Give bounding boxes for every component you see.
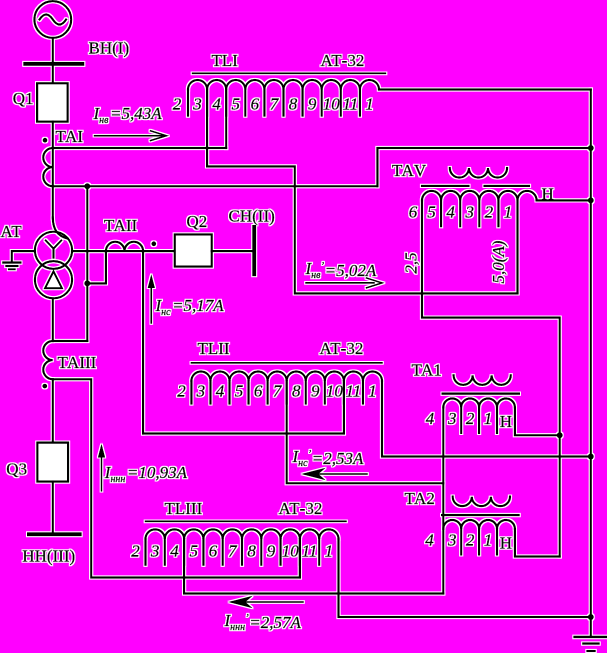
wire TAII right lead down xyxy=(142,251,144,433)
TA1 core bar xyxy=(443,393,519,395)
wire TAI top lead xyxy=(53,147,226,149)
svg-text:1: 1 xyxy=(325,542,334,561)
TLIII tap 4|5 long lead xyxy=(184,539,443,594)
junction xyxy=(588,614,594,620)
svg-text:НН(III): НН(III) xyxy=(22,547,75,566)
CT TAII polarity dot xyxy=(151,241,156,246)
TLI overbar xyxy=(193,72,386,74)
CT TA2 primary loops xyxy=(453,497,510,507)
svg-text:11: 11 xyxy=(302,542,318,561)
svg-text:3: 3 xyxy=(465,203,475,222)
svg-text:2: 2 xyxy=(466,531,475,550)
svg-text:ТА1: ТА1 xyxy=(412,361,442,380)
svg-text:Н: Н xyxy=(500,412,512,431)
CT TAIII loops xyxy=(43,341,53,379)
TAV terminal 6 lead xyxy=(422,200,560,556)
wire TLII end 1 to bus xyxy=(382,381,591,457)
svg-text:ТАIII: ТАIII xyxy=(58,353,97,372)
TA2 tap pins xyxy=(461,529,497,555)
junction xyxy=(588,454,594,460)
svg-text:1: 1 xyxy=(365,95,374,114)
svg-text:1: 1 xyxy=(484,531,493,550)
svg-text:6: 6 xyxy=(254,382,263,401)
right bus wire xyxy=(590,90,592,636)
CT TAIII polarity dot xyxy=(42,384,47,389)
svg-text:11: 11 xyxy=(342,95,358,114)
svg-text:1: 1 xyxy=(368,382,377,401)
junction xyxy=(588,145,594,151)
TLIII overbar xyxy=(146,520,347,522)
AT lower winding circle (delta) xyxy=(35,261,72,298)
svg-text:6: 6 xyxy=(209,542,218,561)
winding TAV secondary arcs xyxy=(422,191,537,201)
TA1 tap pins xyxy=(461,407,497,433)
svg-text:10: 10 xyxy=(323,95,341,114)
svg-text:ТАV: ТАV xyxy=(392,161,427,180)
svg-text:8: 8 xyxy=(292,382,301,401)
breaker Q2 xyxy=(175,234,212,266)
TLIII tap 10|11 lead xyxy=(299,539,301,578)
svg-text:10: 10 xyxy=(326,382,344,401)
ground (AT neutral) xyxy=(3,263,20,270)
TLI tap 3|4 long lead xyxy=(207,90,517,294)
wire TLI end 1 to bus xyxy=(379,88,591,90)
svg-text:4: 4 xyxy=(425,531,434,550)
svg-text:4: 4 xyxy=(426,409,435,428)
winding TLII arcs xyxy=(191,371,382,381)
svg-text:2: 2 xyxy=(131,542,140,561)
CT TAI polarity dot xyxy=(43,138,48,143)
svg-text:АТ-32: АТ-32 xyxy=(321,51,365,70)
svg-text:СН(II): СН(II) xyxy=(229,207,275,226)
svg-text:3: 3 xyxy=(150,542,160,561)
svg-text:3: 3 xyxy=(192,95,202,114)
busbar BH(I) xyxy=(25,62,82,66)
wire TAIII top lead xyxy=(53,340,88,342)
wire TA2 H lead xyxy=(515,529,560,557)
svg-text:6: 6 xyxy=(251,95,260,114)
winding TLIII arcs xyxy=(146,529,339,539)
op: AT upper winding circle (Y) xyxy=(35,232,72,269)
svg-text:9: 9 xyxy=(311,382,320,401)
winding TA2 secondary arcs xyxy=(443,520,515,529)
wire xyxy=(52,38,54,62)
wire TAII left lead xyxy=(87,251,106,283)
svg-text:2: 2 xyxy=(485,203,494,222)
wire xyxy=(52,298,54,341)
arrow I_nnn xyxy=(98,444,105,491)
TLI tap 4|5 lead to TAI xyxy=(225,90,227,149)
wire xyxy=(212,250,252,252)
wire TAV H to bus xyxy=(537,199,591,201)
svg-text:2,5: 2,5 xyxy=(402,252,421,273)
CT TAI secondary loops xyxy=(43,148,53,186)
svg-text:11: 11 xyxy=(346,382,362,401)
CT TAII loops xyxy=(106,242,143,251)
svg-text:Н: Н xyxy=(500,534,512,553)
svg-text:АТ-32: АТ-32 xyxy=(279,499,323,518)
svg-text:АТ: АТ xyxy=(1,222,23,241)
arrow I_nv xyxy=(95,131,167,141)
svg-text:7: 7 xyxy=(273,382,283,401)
svg-text:Q2: Q2 xyxy=(187,212,208,231)
TLII tap pins xyxy=(191,381,363,404)
junction xyxy=(557,432,563,438)
svg-text:ТАII: ТАII xyxy=(104,216,137,235)
CT TA1 primary loops xyxy=(454,375,511,385)
wire TA1 H lead xyxy=(515,407,560,435)
svg-text:5: 5 xyxy=(232,95,241,114)
TLIII tap pins xyxy=(146,539,320,565)
svg-text:9: 9 xyxy=(267,542,276,561)
svg-text:7: 7 xyxy=(228,542,238,561)
svg-text:ТLIII: ТLIII xyxy=(165,499,203,518)
svg-text:1: 1 xyxy=(484,409,493,428)
svg-text:6: 6 xyxy=(409,203,418,222)
svg-text:8: 8 xyxy=(289,95,298,114)
wire xyxy=(52,482,54,533)
wire TAI bottom lead xyxy=(53,185,378,187)
arrow I_ns xyxy=(148,274,155,323)
junction xyxy=(84,183,90,189)
svg-text:4: 4 xyxy=(170,542,179,561)
wire TAIII bottom lead xyxy=(53,379,300,577)
TLII tap 7|8 long lead xyxy=(287,381,444,483)
wire TLIII end 1 to ground bus xyxy=(339,539,591,617)
svg-text:3: 3 xyxy=(196,382,206,401)
junction xyxy=(588,197,594,203)
CT TAV primary loops xyxy=(450,168,507,178)
svg-text:ТАI: ТАI xyxy=(56,127,84,146)
ground (relay circuit) xyxy=(575,637,607,651)
svg-text:2: 2 xyxy=(173,95,182,114)
svg-text:10: 10 xyxy=(282,542,300,561)
svg-text:АТ-32: АТ-32 xyxy=(320,339,364,358)
wire up to right bus xyxy=(377,148,590,186)
svg-text:5: 5 xyxy=(427,203,436,222)
svg-text:4: 4 xyxy=(212,95,221,114)
svg-text:Q1: Q1 xyxy=(13,89,34,108)
TLII overbar xyxy=(191,362,382,364)
wire xyxy=(52,122,54,219)
svg-text:ТLII: ТLII xyxy=(198,339,230,358)
breaker Q1 xyxy=(37,83,68,122)
TAV tap pins xyxy=(441,200,498,226)
svg-text:9: 9 xyxy=(308,95,317,114)
wire TAII to TLII tap xyxy=(143,432,344,434)
svg-text:ВН(I): ВН(I) xyxy=(89,39,130,58)
winding TLI arcs xyxy=(188,80,379,90)
svg-text:2: 2 xyxy=(466,409,475,428)
svg-text:Q3: Q3 xyxy=(6,460,27,479)
wire curve into AT xyxy=(53,218,68,239)
svg-text:ТLI: ТLI xyxy=(212,51,239,70)
wire AT medium-voltage lead xyxy=(72,250,175,252)
svg-text:1: 1 xyxy=(504,203,513,222)
svg-text:ТА2: ТА2 xyxy=(405,489,435,508)
TLI tap pins xyxy=(188,90,360,116)
busbar CH(II) xyxy=(252,227,256,274)
wire TAI/TAII/TAIII secondary chain vertical xyxy=(86,186,88,341)
wire xyxy=(52,379,54,442)
TLII tap 10|11 lead xyxy=(343,381,345,434)
winding TA1 secondary arcs xyxy=(443,398,515,407)
svg-text:2: 2 xyxy=(177,382,186,401)
wire to ground xyxy=(12,251,35,262)
svg-text:4: 4 xyxy=(446,203,455,222)
generator G xyxy=(34,1,71,38)
junction xyxy=(84,280,90,286)
wire xyxy=(52,66,54,83)
arrow I*_nv xyxy=(306,278,382,288)
arrow I*_ns xyxy=(301,468,367,481)
svg-text:7: 7 xyxy=(270,95,280,114)
svg-text:3: 3 xyxy=(447,409,457,428)
svg-text:Н: Н xyxy=(542,185,554,204)
TAV core bars xyxy=(422,185,529,187)
svg-text:4: 4 xyxy=(216,382,225,401)
svg-text:5: 5 xyxy=(235,382,244,401)
TAV tap lead (5,0 A) xyxy=(516,200,518,293)
svg-text:5: 5 xyxy=(190,542,199,561)
svg-text:3: 3 xyxy=(447,531,457,550)
TA2 core bar xyxy=(442,514,518,516)
busbar HH(III) xyxy=(29,532,80,536)
wire TA1 left terminal chain down to TA2 xyxy=(442,407,444,593)
svg-text:8: 8 xyxy=(247,542,256,561)
svg-text:5,0(А): 5,0(А) xyxy=(489,240,508,283)
breaker Q3 xyxy=(37,443,68,482)
arrow I*_nnn xyxy=(228,596,303,609)
